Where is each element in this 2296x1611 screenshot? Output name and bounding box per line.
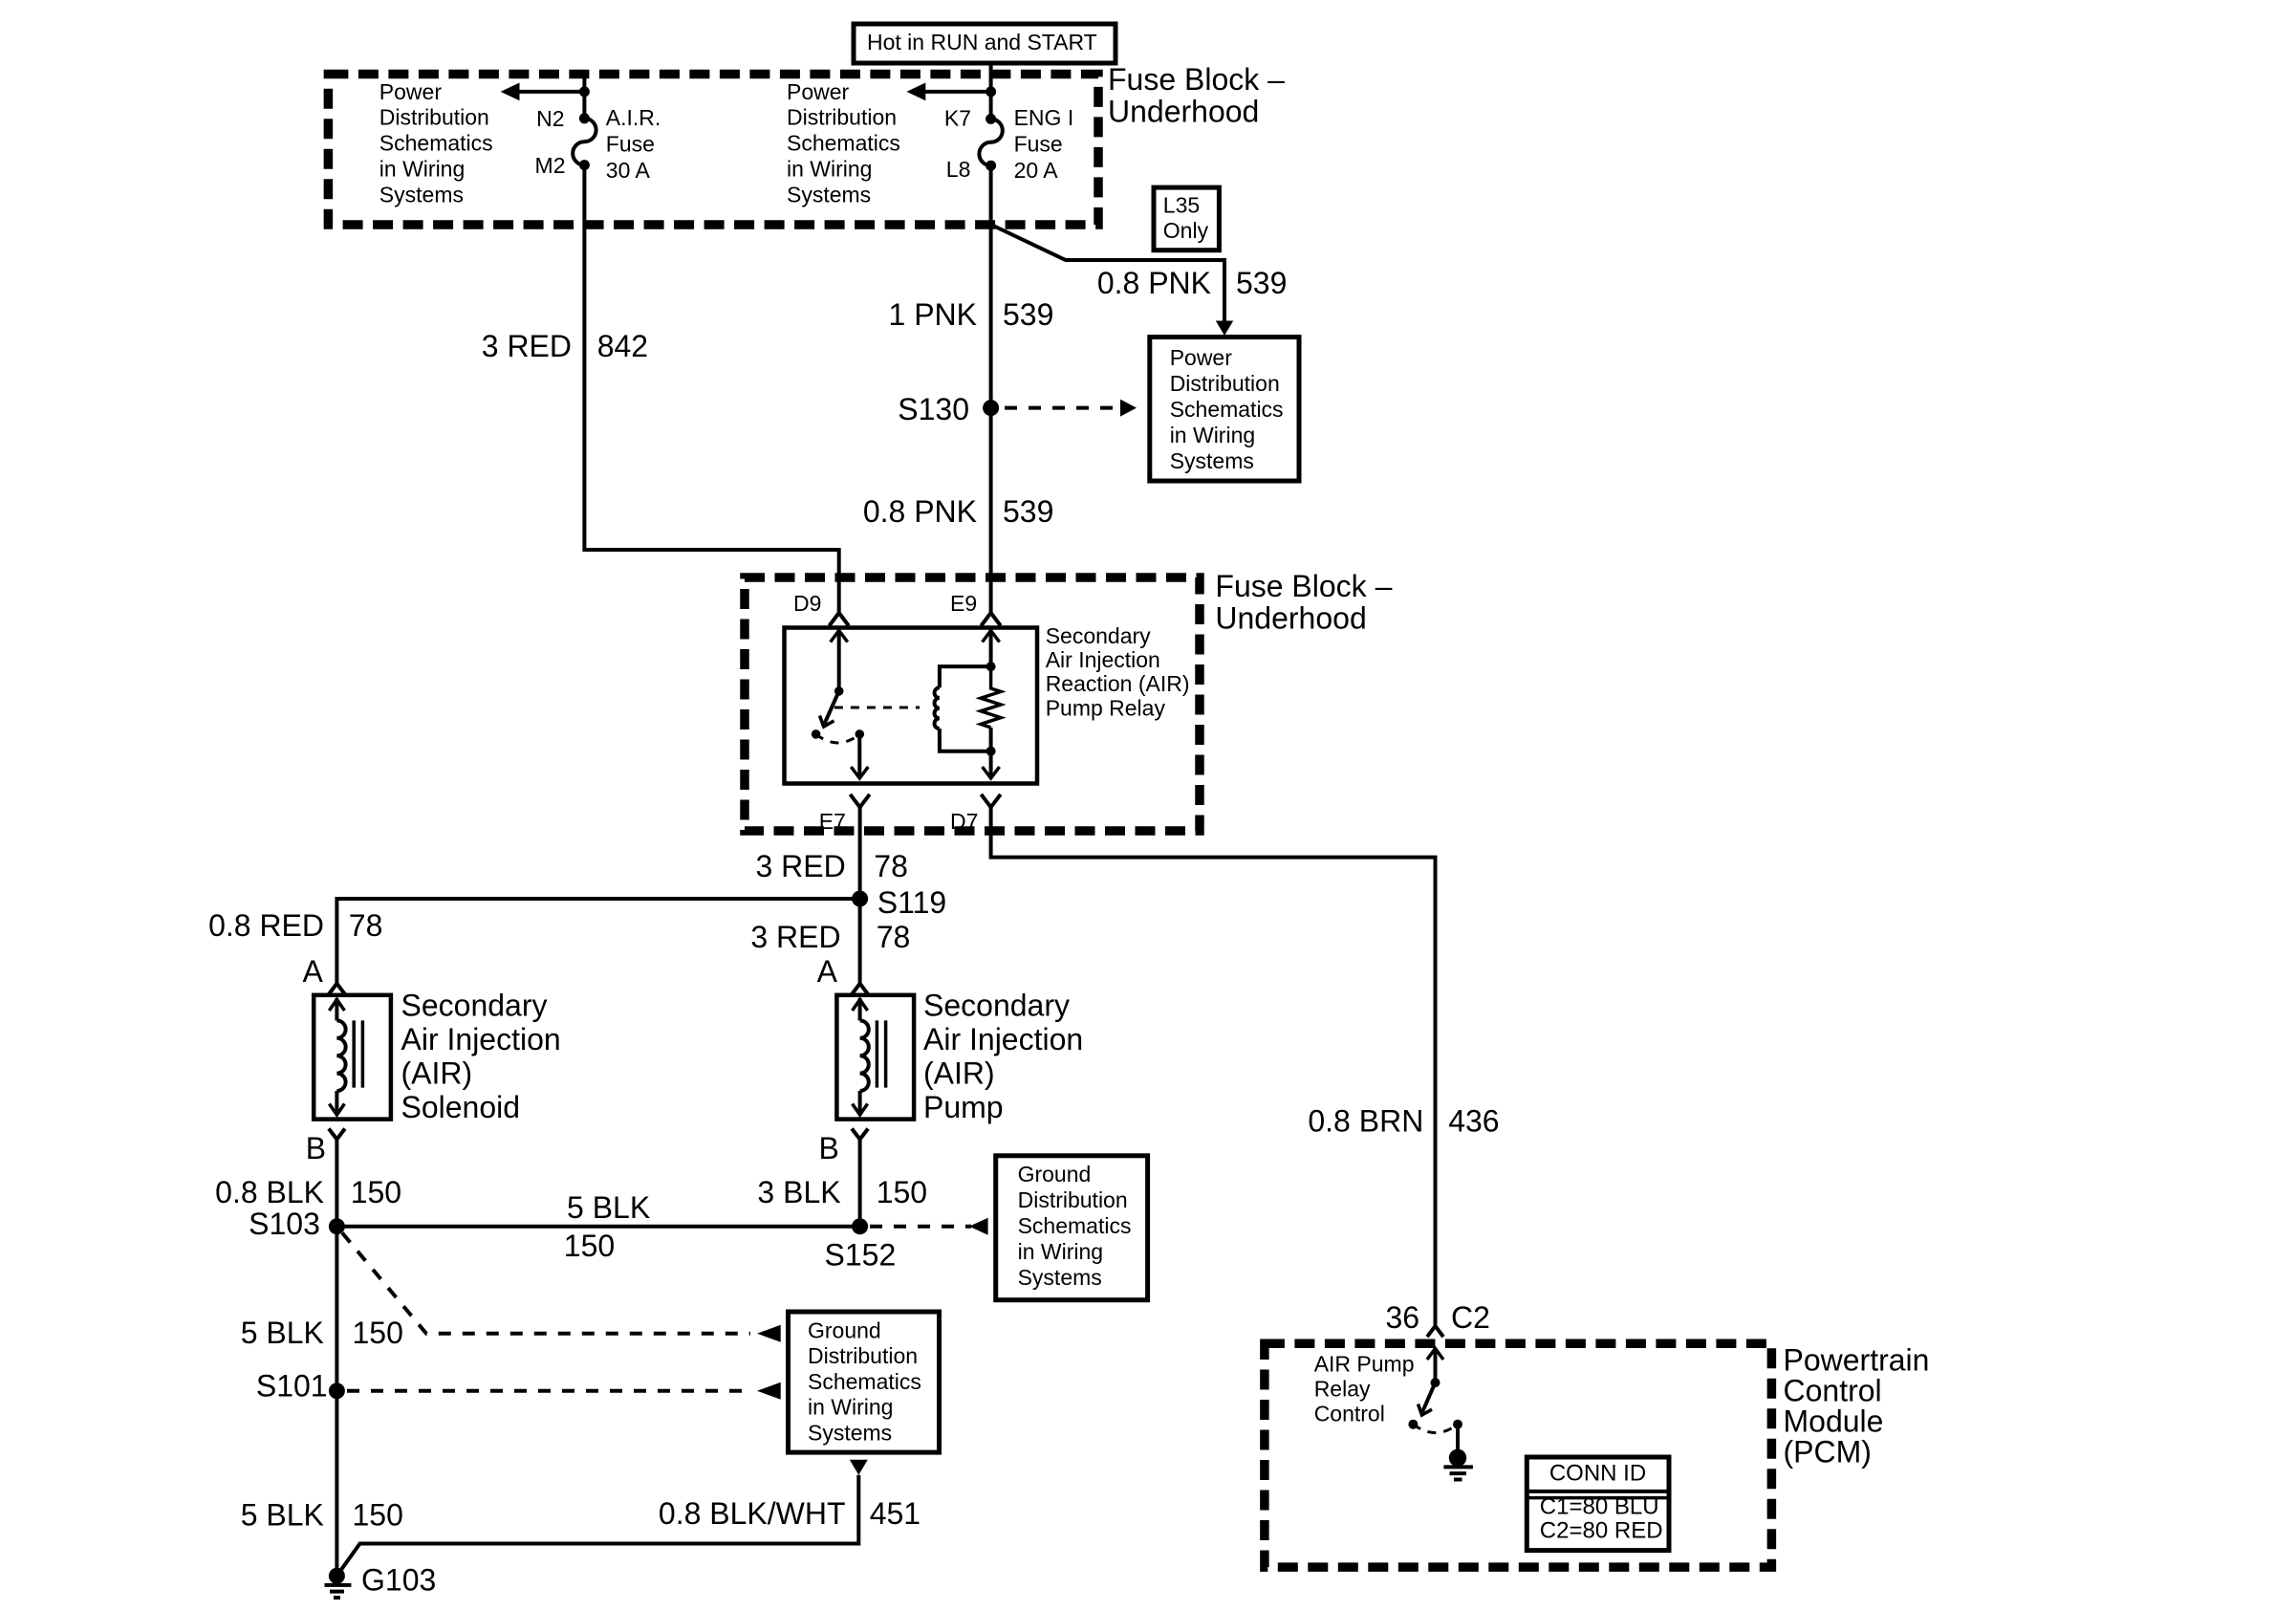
- svg-text:0.8 BRN: 0.8 BRN: [1308, 1103, 1423, 1138]
- value label 5 BLK 150 (S103-S101): [241, 1316, 403, 1350]
- value label 0.8 RED 78: [208, 908, 382, 943]
- svg-text:S103: S103: [249, 1207, 320, 1241]
- value label 5 BLK 150 (S103-S152): [564, 1190, 650, 1263]
- svg-text:D7: D7: [950, 809, 978, 834]
- value label 0.8 BLK 150: [215, 1175, 401, 1209]
- node: Ground Distribution Schematics box (S103/S101 target): [789, 1312, 940, 1452]
- svg-text:0.8 RED: 0.8 RED: [208, 908, 324, 943]
- svg-text:0.8 BLK: 0.8 BLK: [215, 1175, 324, 1209]
- svg-text:78: 78: [874, 849, 908, 883]
- Fuse Block - Underhood (top) dashed enclosure: [328, 75, 1098, 226]
- wire: solenoid B down to S103: [335, 1140, 338, 1227]
- node: CONN ID table: [1527, 1457, 1669, 1551]
- wire: S103 to S152: [336, 1225, 859, 1229]
- svg-text:36: 36: [1386, 1300, 1420, 1335]
- wire: E9 into relay: [983, 630, 1000, 669]
- junction coil top: [986, 662, 996, 671]
- value label 0.8 BLK/WHT 451: [659, 1496, 921, 1531]
- wire: pump B down to S152: [858, 1140, 862, 1227]
- splice S130: [898, 392, 999, 426]
- svg-text:0.8 PNK: 0.8 PNK: [1097, 266, 1211, 300]
- svg-text:1 PNK: 1 PNK: [889, 297, 977, 332]
- wire: S103 down to G103: [335, 1227, 338, 1577]
- svg-text:150: 150: [353, 1498, 403, 1533]
- svg-text:842: 842: [597, 329, 648, 363]
- svg-text:E7: E7: [819, 809, 846, 834]
- svg-text:N2: N2: [536, 106, 564, 131]
- svg-text:B: B: [306, 1131, 326, 1165]
- svg-text:150: 150: [351, 1175, 401, 1209]
- svg-text:150: 150: [877, 1175, 927, 1209]
- connector chevron D7: [981, 795, 1000, 808]
- svg-text:Hot in RUN and START: Hot in RUN and START: [867, 30, 1097, 54]
- svg-text:5 BLK: 5 BLK: [241, 1316, 324, 1350]
- svg-text:436: 436: [1448, 1103, 1499, 1138]
- svg-text:150: 150: [564, 1229, 615, 1263]
- svg-text:539: 539: [1236, 266, 1287, 300]
- svg-text:539: 539: [1003, 494, 1053, 529]
- PCM driver switch blade: [1419, 1382, 1436, 1415]
- wire: feed from Hot box into ENG I fuse: [989, 63, 993, 119]
- svg-text:A: A: [303, 954, 324, 989]
- connector chevron E7: [850, 795, 869, 808]
- svg-text:539: 539: [1003, 297, 1053, 332]
- svg-text:5 BLK: 5 BLK: [567, 1190, 650, 1225]
- connector chevron PCM pin 36: [1427, 1326, 1443, 1337]
- node: Hot in RUN and START feed box: [854, 24, 1116, 63]
- wire: L8 fuse output down to relay E9: [989, 165, 993, 613]
- connector chevron solenoid B: [329, 1129, 345, 1140]
- svg-text:0.8 BLK/WHT: 0.8 BLK/WHT: [659, 1496, 846, 1531]
- wire: switch output to E7: [851, 734, 868, 778]
- node: Power Distribution Schematics box (S130 target): [1150, 337, 1299, 482]
- fuse F2 ENG I Fuse 20 A: [979, 119, 1002, 165]
- solenoid L1 Secondary Air Injection (AIR) Solenoid: [314, 995, 391, 1120]
- wire: feed into A.I.R. fuse: [582, 71, 586, 119]
- value label 3 BLK 150: [757, 1175, 927, 1209]
- motor M1 Secondary Air Injection (AIR) Pump: [836, 995, 914, 1120]
- wire: S119 branch to solenoid: [336, 899, 859, 984]
- wire: E7 down to S119: [858, 807, 862, 899]
- wire: contact to internal ground: [1456, 1425, 1460, 1451]
- svg-text:78: 78: [349, 908, 383, 943]
- svg-text:C2: C2: [1451, 1300, 1490, 1335]
- node: L35 Only tag box: [1154, 187, 1219, 250]
- svg-text:S119: S119: [877, 885, 946, 920]
- wire: 451 circuit to G103: [336, 1475, 858, 1576]
- ground (PCM internal): [1443, 1449, 1473, 1480]
- svg-text:D9: D9: [793, 591, 821, 616]
- svg-text:150: 150: [353, 1316, 403, 1350]
- svg-text:E9: E9: [950, 591, 977, 616]
- svg-text:78: 78: [877, 920, 911, 954]
- value label 1 PNK 539: [889, 297, 1054, 332]
- relay actuation link (dashed): [834, 707, 920, 709]
- svg-text:A: A: [817, 954, 838, 989]
- connector chevron pump A: [852, 984, 868, 994]
- svg-text:Fuse Block –Underhood: Fuse Block –Underhood: [1215, 569, 1392, 636]
- wire: S119 down to pump A: [858, 899, 862, 984]
- PCM switch travel arc (dashed): [1413, 1425, 1458, 1433]
- splice S152: [825, 1218, 897, 1272]
- resistor R (relay suppression): [981, 666, 1001, 728]
- value label 0.8 BRN 436: [1308, 1103, 1499, 1138]
- wire: dashed reference from S130: [1005, 400, 1137, 417]
- svg-text:S130: S130: [898, 392, 969, 426]
- value label 0.8 PNK 539 (to relay): [863, 494, 1054, 529]
- relay stationary contact: [812, 729, 821, 739]
- svg-text:0.8 PNK: 0.8 PNK: [863, 494, 977, 529]
- splice S101: [256, 1368, 345, 1403]
- value label 0.8 PNK 539 (L35 branch): [1097, 266, 1288, 300]
- relay switch common from D9: [831, 630, 848, 696]
- svg-text:K7: K7: [944, 106, 971, 131]
- PCM switch ground contact: [1453, 1420, 1462, 1429]
- node: Ground Distribution Schematics box (S152 target): [996, 1156, 1148, 1300]
- value label 3 RED 842: [482, 329, 648, 363]
- junction coil bottom: [986, 747, 996, 756]
- value label 5 BLK 150 (to G103): [241, 1498, 403, 1533]
- arrow into power distribution box: [1216, 321, 1233, 337]
- ground G103: [325, 1563, 437, 1598]
- svg-text:3 RED: 3 RED: [750, 920, 840, 954]
- junction on A.I.R. feed: [579, 86, 590, 97]
- wire: D7 down and over to PCM: [991, 807, 1436, 1326]
- svg-text:B: B: [818, 1131, 838, 1165]
- wire: M2 down, over to relay D9: [584, 165, 838, 613]
- connector chevron pump B: [852, 1129, 868, 1140]
- wire: arrow to power distribution (right): [906, 83, 990, 101]
- svg-text:3 RED: 3 RED: [755, 849, 845, 883]
- wire: relay to D7: [983, 728, 1000, 778]
- svg-text:CONN ID: CONN ID: [1549, 1461, 1646, 1487]
- svg-text:5 BLK: 5 BLK: [241, 1498, 324, 1533]
- arrow out of ground distribution box: [850, 1460, 868, 1475]
- svg-text:451: 451: [870, 1496, 921, 1531]
- svg-text:C1=80 BLUC2=80 RED: C1=80 BLUC2=80 RED: [1540, 1494, 1663, 1544]
- Fuse Block - Underhood (middle) dashed enclosure: [745, 577, 1200, 831]
- Powertrain Control Module dashed enclosure: [1265, 1343, 1772, 1567]
- fuse F1 A.I.R. Fuse 30 A: [573, 119, 596, 165]
- wire: dashed reference from S103: [342, 1233, 781, 1342]
- relay switch output contact: [856, 729, 865, 739]
- relay coil branch: [935, 666, 991, 751]
- connector chevron solenoid A: [329, 984, 345, 994]
- svg-text:3 RED: 3 RED: [482, 329, 572, 363]
- svg-text:L8: L8: [946, 157, 971, 182]
- svg-text:S152: S152: [825, 1238, 897, 1273]
- svg-text:S101: S101: [256, 1368, 328, 1403]
- wire: dashed reference from S101: [347, 1382, 781, 1400]
- svg-text:3 BLK: 3 BLK: [757, 1175, 840, 1209]
- svg-text:M2: M2: [535, 153, 566, 178]
- PCM switch stationary contact: [1408, 1420, 1418, 1429]
- connector chevron E9: [981, 613, 1000, 626]
- splice S103: [249, 1207, 345, 1241]
- relay switch blade (movable contact): [820, 691, 839, 727]
- connector chevron D9: [830, 613, 849, 626]
- svg-text:Fuse Block –Underhood: Fuse Block –Underhood: [1108, 62, 1285, 129]
- junction on ENG I feed: [986, 86, 996, 97]
- relay K1 AIR Pump Relay box: [785, 628, 1038, 784]
- wire: arrow to power distribution (left): [501, 83, 585, 101]
- wire: dashed reference from S152: [870, 1218, 988, 1235]
- PCM driver switch common: [1427, 1348, 1443, 1387]
- pin 36 connector C2: [1386, 1300, 1490, 1335]
- value label 3 RED 78 (below S119): [750, 920, 910, 954]
- wire: branch to L35 only circuit: [992, 226, 1224, 332]
- relay switch travel arc (dashed): [816, 734, 860, 743]
- svg-text:G103: G103: [361, 1563, 436, 1598]
- value label 3 RED 78 (above S119): [755, 849, 907, 883]
- splice S119: [852, 885, 946, 920]
